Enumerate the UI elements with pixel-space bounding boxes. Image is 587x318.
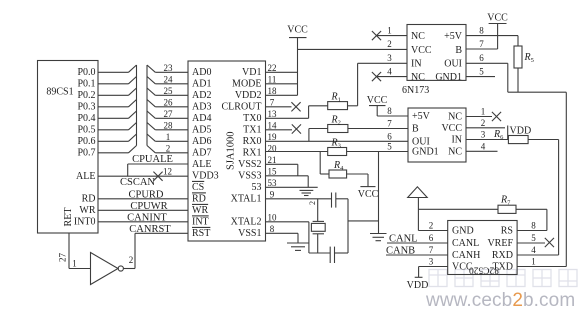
svg-text:26: 26 <box>164 98 174 108</box>
svg-text:2: 2 <box>387 39 392 49</box>
svg-text:NC: NC <box>448 112 462 123</box>
svg-text:CANB: CANB <box>386 246 415 257</box>
wire CLROUT pin 7 no-connect <box>266 102 301 111</box>
svg-text:OUI: OUI <box>444 59 462 70</box>
svg-text:RX1: RX1 <box>243 147 262 158</box>
wire U3 pin 8 +5V to R5 <box>466 35 518 37</box>
svg-text:R2: R2 <box>331 115 341 127</box>
svg-text:TX1: TX1 <box>243 124 261 135</box>
power VCC (downward) symbol under R4 <box>347 174 379 200</box>
svg-text:7: 7 <box>429 245 434 255</box>
svg-text:R7: R7 <box>500 195 511 207</box>
svg-text:8: 8 <box>479 25 484 35</box>
IC U2 SJA1000 CAN controller <box>188 61 266 241</box>
svg-text:3: 3 <box>481 130 486 140</box>
power triangle symbol above U5 <box>408 187 428 231</box>
wire RX1 pin 20 to resistor R3 <box>266 151 328 153</box>
svg-text:89CS1: 89CS1 <box>46 87 73 98</box>
resistor R2 <box>328 115 348 133</box>
svg-text:WR: WR <box>79 205 95 216</box>
svg-text:VD1: VD1 <box>242 67 261 78</box>
svg-text:RET: RET <box>63 208 74 227</box>
svg-text:8: 8 <box>270 224 275 234</box>
wire P0.1 to AD1 (pin 24) <box>98 75 188 85</box>
svg-text:NC: NC <box>411 72 425 83</box>
svg-text:2: 2 <box>129 255 134 265</box>
wire VD1 pin 22 to VCC <box>266 71 298 73</box>
svg-text:VDD: VDD <box>407 280 429 291</box>
svg-text:MODE: MODE <box>232 78 261 89</box>
svg-text:AD6: AD6 <box>192 136 211 147</box>
wire VSS1 pin 8 to ground <box>266 233 299 243</box>
pin numbers U4 right <box>481 107 486 152</box>
wire P0.4 to AD4 (pin 27) <box>98 109 188 119</box>
pin numbers U4 left <box>387 106 392 152</box>
svg-text:B: B <box>455 45 462 56</box>
svg-text:2: 2 <box>429 221 434 231</box>
capacitor C1 <box>332 193 349 208</box>
svg-text:AD5: AD5 <box>192 124 211 135</box>
svg-text:CS: CS <box>192 182 204 193</box>
wire CANINT net <box>98 212 188 223</box>
svg-text:8: 8 <box>531 221 536 231</box>
resistor R7 <box>498 195 516 214</box>
svg-text:IN: IN <box>451 135 462 146</box>
wire R2 to U4 pin 7 B <box>348 128 408 130</box>
svg-text:CLROUT: CLROUT <box>222 101 262 112</box>
svg-text:RST: RST <box>192 228 210 239</box>
wire to resistor R7 <box>418 208 498 210</box>
svg-text:GND1: GND1 <box>412 147 439 158</box>
ground symbol on pin 53 net <box>300 190 314 195</box>
svg-text:2: 2 <box>481 118 486 128</box>
wire pin 53 <box>266 186 318 188</box>
watermark chinese characters <box>429 270 577 287</box>
svg-text:5: 5 <box>479 66 484 76</box>
svg-text:82C520: 82C520 <box>469 265 499 275</box>
wire U3 pin 5 GND1 stub <box>466 76 495 78</box>
wire TXD pin 1 <box>517 266 566 268</box>
svg-text:R3: R3 <box>331 138 341 150</box>
svg-text:6: 6 <box>479 53 484 63</box>
svg-text:RD: RD <box>82 194 96 205</box>
wire CANL net <box>387 233 448 244</box>
optocoupler U4 6N173 (RX) <box>408 108 466 162</box>
svg-text:9: 9 <box>270 190 275 200</box>
wire capacitor rail <box>348 199 379 253</box>
svg-text:P0.1: P0.1 <box>77 78 95 89</box>
svg-text:7: 7 <box>479 39 484 49</box>
capacitor C2 <box>330 247 348 263</box>
resistor R1 <box>328 92 348 110</box>
wire inverter output (pin 2) to CANRST <box>123 233 135 268</box>
svg-text:23: 23 <box>164 63 174 73</box>
wire U3 pin 4 no-connect <box>372 72 407 81</box>
wire TX0 pin 13 to resistor R1 <box>266 106 328 119</box>
pin numbers U3 right <box>479 25 484 76</box>
bus bundle between 89C51 and SJA1000 <box>137 65 148 146</box>
pin numbers SJA1000 right side <box>268 63 278 234</box>
wire CPUWR net <box>98 201 188 212</box>
svg-text:28: 28 <box>164 121 174 131</box>
wire VCC pin 3 to VDD <box>407 267 448 292</box>
svg-text:XTAL1: XTAL1 <box>231 193 262 204</box>
wire branch RX0 to resistor R2 <box>309 129 328 142</box>
svg-text:CANINT: CANINT <box>127 212 167 223</box>
resistor R3 <box>328 138 347 156</box>
wire branch to resistor R4 <box>320 152 329 175</box>
svg-text:12: 12 <box>163 166 172 176</box>
svg-text:INT0: INT0 <box>74 217 96 228</box>
svg-text:RD: RD <box>192 193 206 204</box>
svg-text:AD0: AD0 <box>192 67 211 78</box>
svg-text:6N173: 6N173 <box>402 85 429 96</box>
svg-text:VREF: VREF <box>487 238 513 249</box>
svg-text:CPUWR: CPUWR <box>130 201 167 212</box>
svg-text:6: 6 <box>429 233 434 243</box>
svg-text:25: 25 <box>164 86 174 96</box>
wire CPURD net <box>98 189 188 200</box>
ground symbol below U4 <box>370 234 387 241</box>
svg-text:P0.7: P0.7 <box>77 147 95 158</box>
svg-text:P0.2: P0.2 <box>77 90 95 101</box>
svg-text:VCC: VCC <box>487 13 508 24</box>
wire U4 pin 3 IN to R6 <box>466 139 508 141</box>
svg-text:VCC: VCC <box>441 123 462 134</box>
IC U5 82C250 CAN transceiver <box>448 221 517 275</box>
wire U4 pin 2 stub <box>466 127 505 129</box>
wire OUI junction to TXD (long) <box>508 92 567 266</box>
svg-text:AD3: AD3 <box>192 101 211 112</box>
power VCC symbol above SJA1000 <box>287 25 308 96</box>
svg-text:RS: RS <box>501 226 513 237</box>
svg-text:VCC: VCC <box>358 189 379 200</box>
svg-text:1: 1 <box>72 259 77 269</box>
svg-text:B: B <box>412 124 419 135</box>
svg-text:6: 6 <box>387 131 392 141</box>
svg-text:IN: IN <box>411 59 422 70</box>
IC U1 89C51 microcontroller <box>38 61 99 234</box>
svg-text:NC: NC <box>411 31 425 42</box>
svg-text:RXD: RXD <box>492 250 513 261</box>
wire RXD pin 4 <box>517 254 559 256</box>
svg-text:ALE: ALE <box>192 159 211 170</box>
svg-text:CANL: CANL <box>452 238 479 249</box>
svg-text:R1: R1 <box>331 92 341 104</box>
ground symbol VSS1 <box>287 243 309 250</box>
wire from 89C51 pin 27 to inverter input <box>58 233 91 269</box>
svg-text:53: 53 <box>252 182 262 193</box>
svg-text:13: 13 <box>268 109 278 119</box>
wire U3 pin 6 OUI <box>466 63 508 92</box>
wire U3 pin 1 no-connect <box>372 31 407 40</box>
wire ALE / VDD3 net with no-connect X (pin 12) and label CSCAN <box>98 166 188 188</box>
wire U4 pin 4 stub <box>466 150 498 152</box>
svg-text:VDD: VDD <box>510 125 532 136</box>
wire U3 pin 7 B to VCC <box>466 48 498 50</box>
wire CANRST net <box>129 224 188 235</box>
svg-text:VCC: VCC <box>287 25 308 36</box>
wire XTAL2 pin 10 <box>266 222 331 253</box>
svg-text:27: 27 <box>58 253 68 263</box>
svg-text:7: 7 <box>270 98 275 108</box>
svg-text:5: 5 <box>387 142 392 152</box>
wire P0.6 to AD6 (pin 1) <box>98 132 188 142</box>
resistor R6 <box>493 129 528 144</box>
svg-text:AD7: AD7 <box>192 147 211 158</box>
wire R6 to RXD <box>528 140 559 256</box>
power VCC symbol above U4 <box>367 95 388 116</box>
pin numbers U5 right <box>531 221 536 267</box>
wire CPUALE net <box>128 154 188 176</box>
svg-text:VDD3: VDD3 <box>192 170 219 181</box>
svg-text:P0.4: P0.4 <box>77 113 95 124</box>
wire U4 pin 5 GND1 to ground <box>378 152 380 234</box>
svg-text:14: 14 <box>268 121 278 131</box>
wire U4 pin 1 no-connect <box>466 112 501 121</box>
svg-text:www.cecb2b.com: www.cecb2b.com <box>425 290 575 311</box>
wire VDD2 pin 18 to VCC <box>266 94 298 96</box>
svg-text:NC: NC <box>448 147 462 158</box>
svg-text:R6: R6 <box>493 129 504 141</box>
wire P0.0 to AD0 (pin 23) <box>98 63 188 73</box>
wire VSS2 pin 21 <box>266 164 298 176</box>
svg-text:7: 7 <box>387 119 392 129</box>
svg-text:8: 8 <box>387 106 392 116</box>
svg-text:4: 4 <box>387 66 392 76</box>
svg-text:VSS3: VSS3 <box>238 170 261 181</box>
svg-text:24: 24 <box>164 75 174 85</box>
svg-text:CPUALE: CPUALE <box>132 154 173 165</box>
svg-text:R5: R5 <box>524 52 534 64</box>
wire P0.5 to AD5 (pin 28) <box>98 121 188 131</box>
svg-text:+5V: +5V <box>412 111 431 122</box>
wire VSS3 pin 15 <box>266 176 309 188</box>
svg-text:P0.5: P0.5 <box>77 124 95 135</box>
svg-text:P0.3: P0.3 <box>77 101 95 112</box>
svg-text:VDD2: VDD2 <box>235 90 262 101</box>
svg-text:GND1: GND1 <box>435 72 462 83</box>
optocoupler U3 6N173 (TX) <box>402 25 466 96</box>
svg-text:CSCAN: CSCAN <box>120 177 155 188</box>
svg-text:1: 1 <box>531 257 536 267</box>
wire MODE pin 11 to VCC <box>266 83 298 85</box>
svg-text:R4: R4 <box>333 160 344 172</box>
svg-text:27: 27 <box>164 109 174 119</box>
svg-text:2: 2 <box>308 201 317 205</box>
wire XTAL1 pin 9 <box>266 199 332 205</box>
svg-text:AD4: AD4 <box>192 113 211 124</box>
wire R3 to U4 pin 5 GND1 <box>347 151 408 153</box>
svg-text:WR: WR <box>192 205 208 216</box>
svg-text:VCC: VCC <box>367 95 388 106</box>
svg-text:2: 2 <box>166 144 171 154</box>
svg-text:4: 4 <box>481 142 486 152</box>
svg-text:+5V: +5V <box>444 31 463 42</box>
svg-text:22: 22 <box>268 63 277 73</box>
wire VCC to optocoupler U3 pin 2 <box>298 48 408 50</box>
svg-text:21: 21 <box>268 155 277 165</box>
wire R1 to U3 pin 3 IN <box>348 63 408 106</box>
wire R7 to RS pin 8 <box>516 209 547 230</box>
svg-text:VSS1: VSS1 <box>238 228 261 239</box>
svg-text:RX0: RX0 <box>243 136 262 147</box>
wire P0.2 to AD2 (pin 25) <box>98 86 188 96</box>
svg-text:AD2: AD2 <box>192 90 211 101</box>
pin numbers U5 left <box>429 221 434 267</box>
svg-text:19: 19 <box>268 132 278 142</box>
wire RX0 pin 19 to U4 pin 6 OUI <box>266 140 409 142</box>
resistor R5 <box>514 36 534 93</box>
wire P0.7 to AD7 (pin 2) <box>98 144 188 154</box>
wire CANB net <box>386 246 448 257</box>
svg-text:P0.0: P0.0 <box>77 67 95 78</box>
svg-text:SJA1000: SJA1000 <box>226 131 237 170</box>
wire TX1 pin 14 no-connect <box>266 124 302 133</box>
crystal Y1 <box>311 199 325 253</box>
svg-text:18: 18 <box>268 86 278 96</box>
wire VREF pin 5 no-connect <box>517 238 554 247</box>
resistor R4 <box>329 160 347 178</box>
svg-text:AD1: AD1 <box>192 78 211 89</box>
svg-text:15: 15 <box>268 167 278 177</box>
svg-text:CANRST: CANRST <box>129 224 171 235</box>
svg-text:GND: GND <box>452 226 474 237</box>
svg-text:1: 1 <box>481 107 486 117</box>
svg-text:4: 4 <box>531 245 536 255</box>
svg-text:CANL: CANL <box>389 233 418 244</box>
svg-text:TX0: TX0 <box>243 113 261 124</box>
svg-text:10: 10 <box>268 213 278 223</box>
power VCC symbol right of U3 <box>487 13 508 49</box>
svg-text:INT: INT <box>192 216 209 227</box>
svg-text:ALE: ALE <box>76 171 95 182</box>
svg-text:CANH: CANH <box>452 250 480 261</box>
svg-text:1: 1 <box>166 132 171 142</box>
svg-text:5: 5 <box>531 233 536 243</box>
svg-text:3: 3 <box>387 53 392 63</box>
wire U4 pin 8 +5V to VCC <box>377 115 408 117</box>
pin numbers U3 left <box>387 25 392 76</box>
inverter gate <box>91 253 124 285</box>
svg-text:VCC: VCC <box>411 45 432 56</box>
svg-text:P0.6: P0.6 <box>77 136 95 147</box>
svg-text:VSS2: VSS2 <box>238 159 261 170</box>
svg-text:11: 11 <box>268 75 277 85</box>
power VDD tick at R6 <box>508 125 531 139</box>
wire P0.3 to AD3 (pin 26) <box>98 98 188 108</box>
svg-text:XTAL2: XTAL2 <box>231 216 262 227</box>
svg-text:3: 3 <box>429 257 434 267</box>
wire GND pin 2 <box>418 230 447 232</box>
svg-text:CPURD: CPURD <box>128 189 163 200</box>
svg-text:1: 1 <box>387 25 392 35</box>
svg-text:53: 53 <box>268 178 278 188</box>
